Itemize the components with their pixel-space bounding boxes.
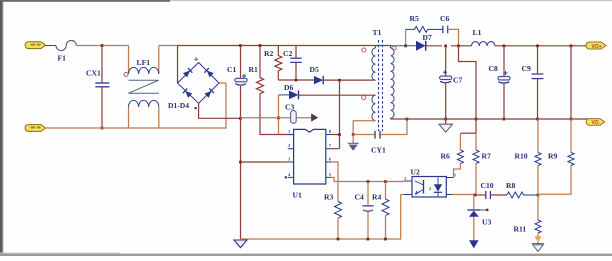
- wire U1 pin5 to optocoupler: [332, 177, 404, 181]
- resistor R8: [507, 192, 538, 198]
- svg-text:U1: U1: [293, 191, 302, 200]
- svg-text:R7: R7: [482, 152, 491, 161]
- terminal J2 AC input neutral: [25, 125, 45, 132]
- capacitor C2: [290, 46, 301, 81]
- label U3: [482, 218, 491, 227]
- resistor R10: [535, 119, 541, 195]
- photo border top edge: [0, 0, 612, 2]
- node C7 top: [444, 45, 447, 48]
- terminal VO+ output: [586, 42, 606, 50]
- label R3: [324, 193, 333, 202]
- U1 pin numbers right: [329, 129, 332, 177]
- label C9: [522, 64, 531, 73]
- svg-text:F1: F1: [58, 54, 67, 63]
- resistor R5: [406, 26, 443, 32]
- photo border bottom edge: [0, 253, 612, 256]
- U1 pin stubs left: [285, 135, 294, 179]
- capacitor C10: [475, 191, 507, 199]
- bridge rectifier D1-D4 diamond: [178, 57, 220, 103]
- U1 pin numbers left: [288, 129, 291, 177]
- wire aux bottom to CY1 junction: [353, 121, 375, 135]
- svg-text:LF1: LF1: [137, 58, 151, 67]
- label CX1: [86, 69, 101, 78]
- svg-text:C6: C6: [440, 14, 449, 23]
- svg-text:C7: C7: [453, 76, 462, 85]
- node C4 bottom: [367, 238, 370, 241]
- transformer T1 core: [379, 40, 383, 131]
- svg-text:R4: R4: [372, 193, 381, 202]
- svg-text:T1: T1: [373, 28, 382, 37]
- label C8: [489, 64, 498, 73]
- svg-text:C2: C2: [283, 49, 292, 58]
- node U1 pin8: [338, 133, 341, 136]
- resistor R1: [257, 46, 294, 135]
- T1 secondary winding: [391, 46, 395, 119]
- node C7 bottom: [444, 118, 447, 121]
- node C1 top: [239, 44, 242, 47]
- node R7 rail crossing: [475, 118, 478, 121]
- wire top rail LF1 to bridge and C1: [159, 45, 391, 47]
- node C9 top: [536, 45, 539, 48]
- LF1 core: [129, 80, 159, 93]
- svg-text:VO: VO: [592, 120, 599, 126]
- primary ground symbol: [234, 240, 247, 248]
- shunt regulator U3 TL431: [467, 195, 488, 240]
- capacitor C9: [532, 46, 544, 119]
- wire C3 branch: [241, 117, 312, 119]
- label R4: [372, 193, 381, 202]
- label U2: [411, 168, 433, 192]
- svg-text:R3: R3: [324, 193, 333, 202]
- fuse F1: [56, 40, 76, 50]
- label R9: [548, 152, 557, 161]
- svg-text:R1: R1: [249, 65, 258, 74]
- R11 ground symbol: [532, 242, 544, 251]
- capacitor C3: [291, 111, 297, 124]
- resistor R7: [473, 133, 479, 195]
- label U1: [293, 191, 302, 200]
- node drain U1 vertical: [338, 79, 341, 82]
- label C4: [355, 193, 364, 202]
- label C10: [481, 181, 494, 190]
- T1 aux winding: [372, 95, 376, 121]
- svg-text:CY1: CY1: [371, 146, 386, 155]
- svg-text:L1: L1: [473, 28, 482, 37]
- wire U1 pin6 to R3: [332, 162, 338, 202]
- diode D5: [314, 76, 323, 84]
- T1 primary winding: [372, 46, 376, 81]
- node riser rail crossing: [570, 118, 573, 121]
- node snubber right R7 tap: [457, 45, 460, 48]
- svg-text:D1-D4: D1-D4: [168, 101, 189, 110]
- node U1 pin3 bus junction: [239, 161, 242, 164]
- resistor R11: [535, 195, 541, 236]
- common-mode choke LF1 lower winding: [129, 100, 159, 128]
- secondary ground symbol: [439, 119, 452, 132]
- svg-text:R6: R6: [441, 152, 450, 161]
- label D5: [310, 65, 319, 74]
- svg-text:D7: D7: [423, 33, 432, 42]
- wire secondary bottom rail: [391, 118, 590, 120]
- T1 primary phase dot: [362, 48, 366, 52]
- label C3: [285, 103, 294, 112]
- diode D6: [279, 91, 299, 100]
- node output branch top: [570, 45, 573, 48]
- resistor R9: [538, 119, 574, 194]
- terminal VO- output: [586, 119, 604, 127]
- aux ground symbol: [348, 135, 359, 151]
- svg-text:CX1: CX1: [86, 69, 101, 78]
- wire U1 pin3 to ground bus: [241, 161, 288, 163]
- LF1 phase dot upper: [124, 73, 128, 77]
- label R1: [249, 65, 258, 74]
- node R4 top: [384, 180, 387, 183]
- node C9 bottom: [536, 118, 539, 121]
- node bridge negative / C1 bottom: [239, 117, 242, 120]
- wire output top rail after L1: [426, 45, 590, 47]
- svg-text:U3: U3: [482, 218, 491, 227]
- common-mode choke LF1 upper winding: [129, 46, 159, 75]
- wire drain node D5 to T1 primary: [324, 79, 376, 81]
- svg-text:D5: D5: [310, 65, 319, 74]
- svg-text:C1: C1: [227, 65, 236, 74]
- resistor R4: [382, 182, 389, 240]
- label D7: [423, 33, 432, 42]
- node C3 wire junction: [277, 117, 280, 120]
- wire R9 top riser: [570, 46, 572, 119]
- resistor R6: [453, 133, 464, 177]
- svg-text:VO+: VO+: [592, 44, 602, 50]
- capacitor C6: [443, 26, 459, 46]
- wire RCD clamp bar: [278, 79, 314, 81]
- node CX1 top: [101, 44, 104, 47]
- node R4 bottom: [384, 238, 387, 241]
- node R8 R10 R11 junction: [537, 194, 540, 197]
- wire bridge neutral to AC bottom: [219, 82, 226, 84]
- label D6: [284, 83, 293, 92]
- photo border left edge: [0, 0, 4, 256]
- resistor R3: [335, 202, 342, 240]
- snubber riser left: [405, 29, 407, 45]
- U3 ground symbol: [469, 240, 479, 248]
- T1 secondary phase dot: [392, 46, 396, 50]
- wire secondary to D7 anode: [391, 45, 417, 47]
- wire primary bottom rail: [241, 195, 401, 240]
- label CY1: [371, 146, 386, 155]
- label R11: [514, 225, 527, 234]
- node clamp junction: [295, 79, 298, 82]
- wire terminal to F1: [46, 45, 57, 47]
- svg-text:C3: C3: [285, 103, 294, 112]
- node C8 top: [503, 45, 506, 48]
- wire U2 collector to feedback node: [453, 194, 476, 196]
- node R3 bottom: [337, 238, 340, 241]
- capacitor C8 electrolytic: [498, 46, 510, 119]
- label L1: [473, 28, 482, 37]
- terminal J1 AC input live: [25, 42, 45, 49]
- svg-text:C8: C8: [489, 64, 498, 73]
- label T1: [373, 28, 382, 37]
- wire F1 to LF1 (top rail left): [76, 45, 128, 47]
- svg-text:U2: U2: [411, 168, 420, 177]
- node feedback junction: [474, 194, 477, 197]
- wire R7 sense tap jog: [459, 46, 477, 133]
- R11 highlight marker: [535, 236, 542, 242]
- label C7: [453, 76, 462, 85]
- optocoupler U2: [412, 177, 446, 198]
- node CX1 bottom: [101, 127, 104, 130]
- capacitor CY1: [353, 119, 407, 139]
- svg-text:R2: R2: [264, 49, 273, 58]
- wire U1 pin8 pin7 to drain vertical: [332, 80, 340, 149]
- label R8: [506, 181, 515, 190]
- label D1-D4: [168, 101, 197, 110]
- label C6: [440, 14, 449, 23]
- svg-text:R5: R5: [410, 14, 419, 23]
- label R10: [515, 152, 528, 161]
- arrow marker C3 return: [312, 114, 318, 122]
- op IC U1 PWM controller: [294, 129, 326, 184]
- wire D6 to T1 aux winding: [299, 94, 376, 96]
- label F1: [58, 54, 67, 63]
- label C1: [227, 65, 236, 74]
- node C4 top: [367, 180, 370, 183]
- capacitor C7 electrolytic: [440, 46, 452, 119]
- resistor R2: [275, 46, 282, 81]
- node R1 top: [259, 44, 262, 47]
- node CY1 left: [352, 133, 355, 136]
- node snubber left: [404, 45, 407, 48]
- svg-text:C4: C4: [355, 193, 364, 202]
- node C8 bottom: [503, 118, 506, 121]
- svg-text:C9: C9: [522, 64, 531, 73]
- svg-text:C10: C10: [481, 181, 494, 190]
- capacitor CX1: [95, 46, 109, 128]
- svg-text:D6: D6: [284, 83, 293, 92]
- label R2: [264, 49, 273, 58]
- capacitor C1 electrolytic: [235, 46, 247, 118]
- svg-text:R8: R8: [506, 181, 515, 190]
- wire primary ground bus: [240, 118, 242, 239]
- svg-text:R9: R9: [548, 152, 557, 161]
- wire bridge live drop: [177, 46, 179, 84]
- wire R6 R7 top bar: [460, 132, 476, 134]
- wire AC neutral bottom: [46, 83, 227, 128]
- label R6: [441, 152, 450, 161]
- svg-text:R10: R10: [515, 152, 528, 161]
- wire D6 feed vertical: [278, 95, 280, 135]
- svg-text:R11: R11: [514, 225, 527, 234]
- node CY1 right secondary rail: [406, 118, 409, 121]
- inductor L1: [472, 42, 495, 46]
- wire U2 cathode to ground rail: [401, 194, 404, 196]
- capacitor C4: [362, 182, 373, 240]
- U2 pin stubs: [403, 173, 456, 195]
- label C2: [283, 49, 292, 58]
- T1 aux phase dot: [362, 95, 366, 99]
- wire bridge negative output: [199, 103, 241, 118]
- label R5: [410, 14, 419, 23]
- label LF1: [137, 58, 151, 67]
- U1 pin stubs right: [326, 135, 332, 178]
- label R7: [482, 152, 491, 161]
- diode D7: [416, 41, 426, 51]
